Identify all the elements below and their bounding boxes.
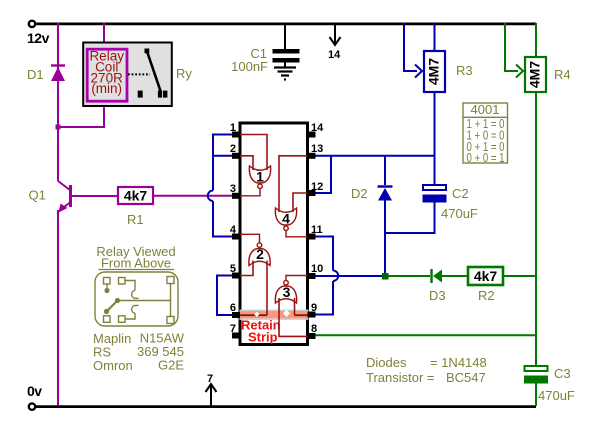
transistor Q1 — [58, 181, 118, 406]
svg-text:R4: R4 — [554, 67, 571, 82]
svg-text:4M7: 4M7 — [527, 61, 543, 88]
svg-text:7: 7 — [230, 323, 236, 335]
wire R1 to pin 3 — [153, 195, 232, 197]
wire copper strip segment pin6 side — [240, 314, 267, 316]
wire pins 5,6 link — [217, 276, 232, 316]
wire pins 11-9 link — [315, 237, 338, 315]
svg-text:4k7: 4k7 — [474, 268, 498, 284]
svg-text:4M7: 4M7 — [426, 58, 442, 85]
strip hole right — [283, 310, 290, 317]
strip hole left — [254, 312, 259, 317]
svg-text:D1: D1 — [27, 67, 44, 82]
svg-text:4: 4 — [282, 211, 290, 227]
svg-text:11: 11 — [311, 224, 323, 236]
wire gate4 output to pin 11 — [286, 231, 308, 237]
wire copper strip segment pin9 side — [295, 314, 308, 316]
4001 truth table — [463, 102, 508, 165]
svg-text:4: 4 — [230, 224, 237, 236]
pin numbers left — [230, 122, 237, 335]
capacitor C2 — [385, 185, 478, 233]
svg-text:0 + 0 = 1: 0 + 0 = 1 — [467, 150, 505, 165]
svg-text:6: 6 — [230, 302, 236, 314]
svg-text:8: 8 — [311, 323, 317, 335]
svg-text:2: 2 — [230, 143, 236, 155]
svg-text:(min): (min) — [91, 81, 122, 96]
retain strip — [240, 310, 309, 312]
gate U1d input wires — [279, 156, 308, 212]
wire pin 10 to D2 node — [315, 275, 385, 277]
wire 0v bottom rail — [36, 405, 536, 408]
svg-text:= 1N4148: = 1N4148 — [430, 355, 487, 370]
svg-text:Ry: Ry — [176, 66, 192, 81]
relay coil arcs — [132, 290, 139, 298]
svg-text:R1: R1 — [127, 212, 144, 227]
relay pinout diagram — [95, 272, 178, 326]
svg-text:C2: C2 — [452, 186, 469, 201]
node 12v terminal — [29, 21, 35, 27]
svg-text:13: 13 — [311, 143, 323, 155]
gate U1a input wires — [240, 135, 267, 171]
svg-text:0v: 0v — [27, 383, 42, 399]
wire R4 top — [535, 23, 537, 57]
svg-text:12v: 12v — [27, 30, 50, 46]
svg-text:4k7: 4k7 — [124, 188, 148, 204]
relay part numbers — [93, 331, 185, 374]
IC pins right — [308, 132, 316, 340]
pin square top-left — [104, 278, 111, 285]
wire R2 to right bus — [503, 275, 536, 277]
svg-text:14: 14 — [311, 122, 324, 134]
pin square bottom-left — [104, 316, 111, 323]
pin square bottom-right — [167, 317, 174, 324]
svg-text:Omron: Omron — [93, 358, 133, 373]
svg-text:2: 2 — [256, 246, 264, 262]
svg-text:470uF: 470uF — [441, 206, 478, 221]
relay switch contacts — [128, 49, 167, 98]
svg-text:BC547: BC547 — [446, 370, 486, 385]
pin numbers right — [311, 122, 324, 335]
wire gate2 inputs — [240, 261, 267, 316]
gate U1b (NOR 2, inverted) — [249, 248, 270, 265]
svg-text:R3: R3 — [456, 63, 473, 78]
svg-text:10: 10 — [311, 263, 323, 275]
wire gate3 output to pin 10 — [286, 276, 308, 281]
resistor R4 — [525, 57, 571, 92]
pin square top-mid — [119, 278, 126, 285]
svg-text:Diodes: Diodes — [366, 355, 407, 370]
svg-text:470uF: 470uF — [538, 388, 575, 403]
svg-text:100nF: 100nF — [231, 59, 268, 74]
wire 12v top rail — [36, 23, 536, 26]
node D2/pin10 junction — [382, 273, 389, 280]
svg-text:Transistor =: Transistor = — [366, 370, 435, 385]
resistor R2 — [468, 267, 503, 303]
diode D2 — [351, 156, 393, 276]
svg-text:5: 5 — [230, 263, 236, 275]
node coil/D1 junction — [56, 125, 61, 130]
armature common line — [118, 300, 171, 302]
wire R3 bottom to C2 — [434, 92, 436, 185]
svg-text:3: 3 — [230, 183, 236, 195]
resistor R3 feed arrow — [404, 23, 422, 78]
wire pins 1,2,4 bus — [213, 135, 232, 237]
pin 14 supply arrow — [328, 23, 341, 61]
svg-text:1: 1 — [230, 122, 236, 134]
wire right vertical bus — [535, 92, 537, 366]
svg-text:Strip: Strip — [248, 330, 278, 345]
svg-text:Q1: Q1 — [29, 188, 46, 203]
wire gate2 output to pin 4 — [240, 234, 260, 242]
armature pivot dots — [104, 288, 109, 293]
svg-text:D3: D3 — [429, 288, 446, 303]
pin square top-right — [167, 277, 174, 284]
svg-text:From Above: From Above — [101, 256, 171, 271]
diode D1 — [51, 23, 65, 181]
svg-text:C3: C3 — [554, 366, 571, 381]
IC pins left — [232, 132, 240, 339]
wire gate3 inputs — [279, 298, 308, 336]
svg-text:G2E: G2E — [158, 358, 184, 373]
svg-text:R2: R2 — [478, 288, 495, 303]
wire pin 13 to R3 — [315, 155, 435, 157]
node 0v terminal — [29, 403, 35, 409]
resistor R4 feed arrow — [505, 23, 523, 78]
svg-text:4001: 4001 — [471, 102, 500, 117]
diode D3 — [429, 269, 468, 303]
pin square bottom-mid — [119, 316, 126, 323]
svg-text:D2: D2 — [351, 186, 368, 201]
svg-text:14: 14 — [328, 49, 341, 61]
resistor R1 — [118, 187, 153, 227]
wire R3 top — [434, 23, 436, 51]
component note — [366, 355, 487, 385]
svg-text:12: 12 — [311, 181, 323, 193]
resistor R3 — [424, 51, 473, 92]
wire relay coil bottom to D1 line — [58, 103, 104, 127]
pin 7 ground arrow — [206, 373, 217, 406]
wire gate1 output to pin 3 — [240, 189, 260, 196]
IC 4001 body — [240, 123, 308, 345]
svg-text:9: 9 — [311, 302, 317, 314]
svg-text:1: 1 — [256, 169, 264, 185]
wire relay coil top feed — [103, 23, 105, 46]
capacitor C1 — [273, 23, 300, 67]
wire junction to D3 — [388, 275, 430, 277]
gate U1d (NOR 4) — [275, 208, 296, 225]
wire pin 12 riser — [315, 156, 331, 193]
gate U1c (NOR 3, inverted) — [275, 286, 296, 303]
wire hop over pin3 wire — [208, 191, 213, 202]
wire pin 8 to right bus — [315, 334, 536, 336]
op... gate U1a (NOR 1) — [249, 166, 270, 183]
relay Ry box — [83, 43, 172, 107]
capacitor C3 — [524, 366, 575, 406]
ground — [274, 68, 296, 80]
svg-text:3: 3 — [283, 284, 291, 300]
svg-text:7: 7 — [207, 373, 213, 385]
